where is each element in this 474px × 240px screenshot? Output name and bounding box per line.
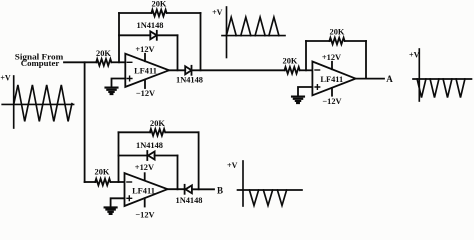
svg-text:20K: 20K <box>283 56 298 65</box>
resistor R4 20K feedback <box>329 38 344 45</box>
diode D4 1N4148 series (points left) <box>185 185 192 193</box>
wire: R1 to U1 inverting input <box>112 61 126 63</box>
svg-text:1N4148: 1N4148 <box>176 196 203 205</box>
pin: U2 inverting minus <box>315 69 320 71</box>
svg-text:A: A <box>386 74 393 84</box>
resistor R6 20K feedback <box>150 129 165 136</box>
wire: D3 feedback right vertical <box>177 156 179 190</box>
wire: B stage input row <box>85 181 96 183</box>
resistor R2 20K feedback <box>151 10 166 17</box>
svg-text:LF411: LF411 <box>134 67 157 76</box>
waveform icon: negative half-wave at B <box>238 161 303 206</box>
svg-text:−12V: −12V <box>135 210 154 218</box>
svg-text:+12V: +12V <box>135 45 154 54</box>
wire: U1 output <box>169 69 185 71</box>
ground U3 <box>105 207 117 214</box>
resistor R1 20K <box>96 59 111 66</box>
diode D1 1N4148 feedback <box>150 31 157 39</box>
node: Signal From Computer label <box>15 52 64 68</box>
waveform icon: positive half-wave (stage1 output) <box>222 7 285 58</box>
wire: top feedback row left <box>119 12 152 14</box>
svg-text:+12V: +12V <box>135 163 154 172</box>
resistor R5 20K <box>95 179 110 186</box>
svg-text:Computer: Computer <box>21 58 60 68</box>
wire: U3 feedback left vertical <box>118 132 120 182</box>
wire: R2 feedback right vertical <box>200 13 202 70</box>
wire: junction vertical to bottom stage <box>84 62 86 182</box>
pin: U3 inverting minus <box>127 181 132 183</box>
op-amp U1 LF411 <box>125 54 169 87</box>
op-amp U2 LF411 <box>312 62 355 96</box>
svg-text:+V: +V <box>0 73 11 82</box>
svg-text:20K: 20K <box>152 0 167 9</box>
wire: R3 to U2 <box>300 69 312 71</box>
ground U2 <box>292 97 304 104</box>
svg-text:−12V: −12V <box>322 97 341 106</box>
power -12V U1 <box>144 80 146 88</box>
wire: R6 feedback right vertical <box>198 132 200 189</box>
wire: diode feedback row left <box>119 34 150 36</box>
wire: R5 to U3 <box>111 181 125 183</box>
node B <box>217 185 223 195</box>
svg-text:20K: 20K <box>96 49 111 58</box>
wire: feedback left vertical U1 <box>118 13 120 62</box>
wire: input to R1 <box>64 61 97 63</box>
svg-text:−12V: −12V <box>136 89 155 98</box>
wire: stage1 output to stage2 <box>192 69 285 71</box>
pin: U2 non-inverting plus <box>315 85 320 90</box>
wire: D4 to B <box>192 188 214 190</box>
svg-text:LF411: LF411 <box>132 186 155 195</box>
wire: U2 feedback left vertical <box>305 41 307 70</box>
wire: U2 feedback row right <box>345 40 366 42</box>
wire: D1 feedback right vertical <box>177 35 179 70</box>
wire: U1 plus input to ground <box>112 79 126 88</box>
ground U1 <box>106 88 118 95</box>
wire: U3 20K feedback row right <box>166 131 199 133</box>
wire: U3 diode feedback row left <box>119 155 148 157</box>
wire: U3 20K feedback row left <box>119 131 151 133</box>
svg-text:B: B <box>217 185 223 195</box>
svg-text:+V: +V <box>212 8 223 17</box>
power -12V U2 <box>331 88 333 96</box>
svg-text:+V: +V <box>227 161 238 170</box>
svg-text:20K: 20K <box>150 119 165 128</box>
svg-text:20K: 20K <box>95 167 110 176</box>
wire: U2 output to A <box>356 78 384 80</box>
power +12V U1 <box>144 54 146 61</box>
svg-text:+12V: +12V <box>322 53 341 62</box>
pin: U1 inverting minus <box>127 61 132 63</box>
waveform icon: input triangle wave <box>2 76 73 128</box>
waveform icon: negative half-wave at A <box>413 49 472 101</box>
resistor R3 20K stage2 input <box>285 67 300 74</box>
power +12V U2 <box>331 62 333 69</box>
op-amp U3 LF411 <box>125 173 168 206</box>
svg-text:1N4148: 1N4148 <box>137 21 164 30</box>
wire: top feedback row right <box>167 12 201 14</box>
pin: U3 non-inverting plus <box>127 196 132 201</box>
node A <box>386 74 393 84</box>
svg-text:20K: 20K <box>330 28 345 37</box>
wire: U2 feedback right vertical <box>365 41 367 79</box>
svg-text:1N4148: 1N4148 <box>136 141 163 150</box>
svg-text:1N4148: 1N4148 <box>176 76 203 85</box>
wire: U3 output <box>168 188 185 190</box>
wire: U3 diode feedback row right <box>155 155 178 157</box>
svg-text:+V: +V <box>409 51 420 60</box>
wire: U2 plus input to ground <box>298 87 312 96</box>
power +12V U3 <box>144 173 146 180</box>
pin: U1 non-inverting plus <box>127 76 132 81</box>
wire: diode feedback row right <box>157 34 178 36</box>
diode D2 1N4148 series <box>185 66 191 74</box>
power -12V U3 <box>144 198 146 206</box>
svg-text:LF411: LF411 <box>320 75 343 84</box>
wire: U2 feedback row left <box>306 40 330 42</box>
diode D3 1N4148 feedback (points left) <box>148 152 155 160</box>
wire: U3 plus input to ground <box>111 198 125 207</box>
